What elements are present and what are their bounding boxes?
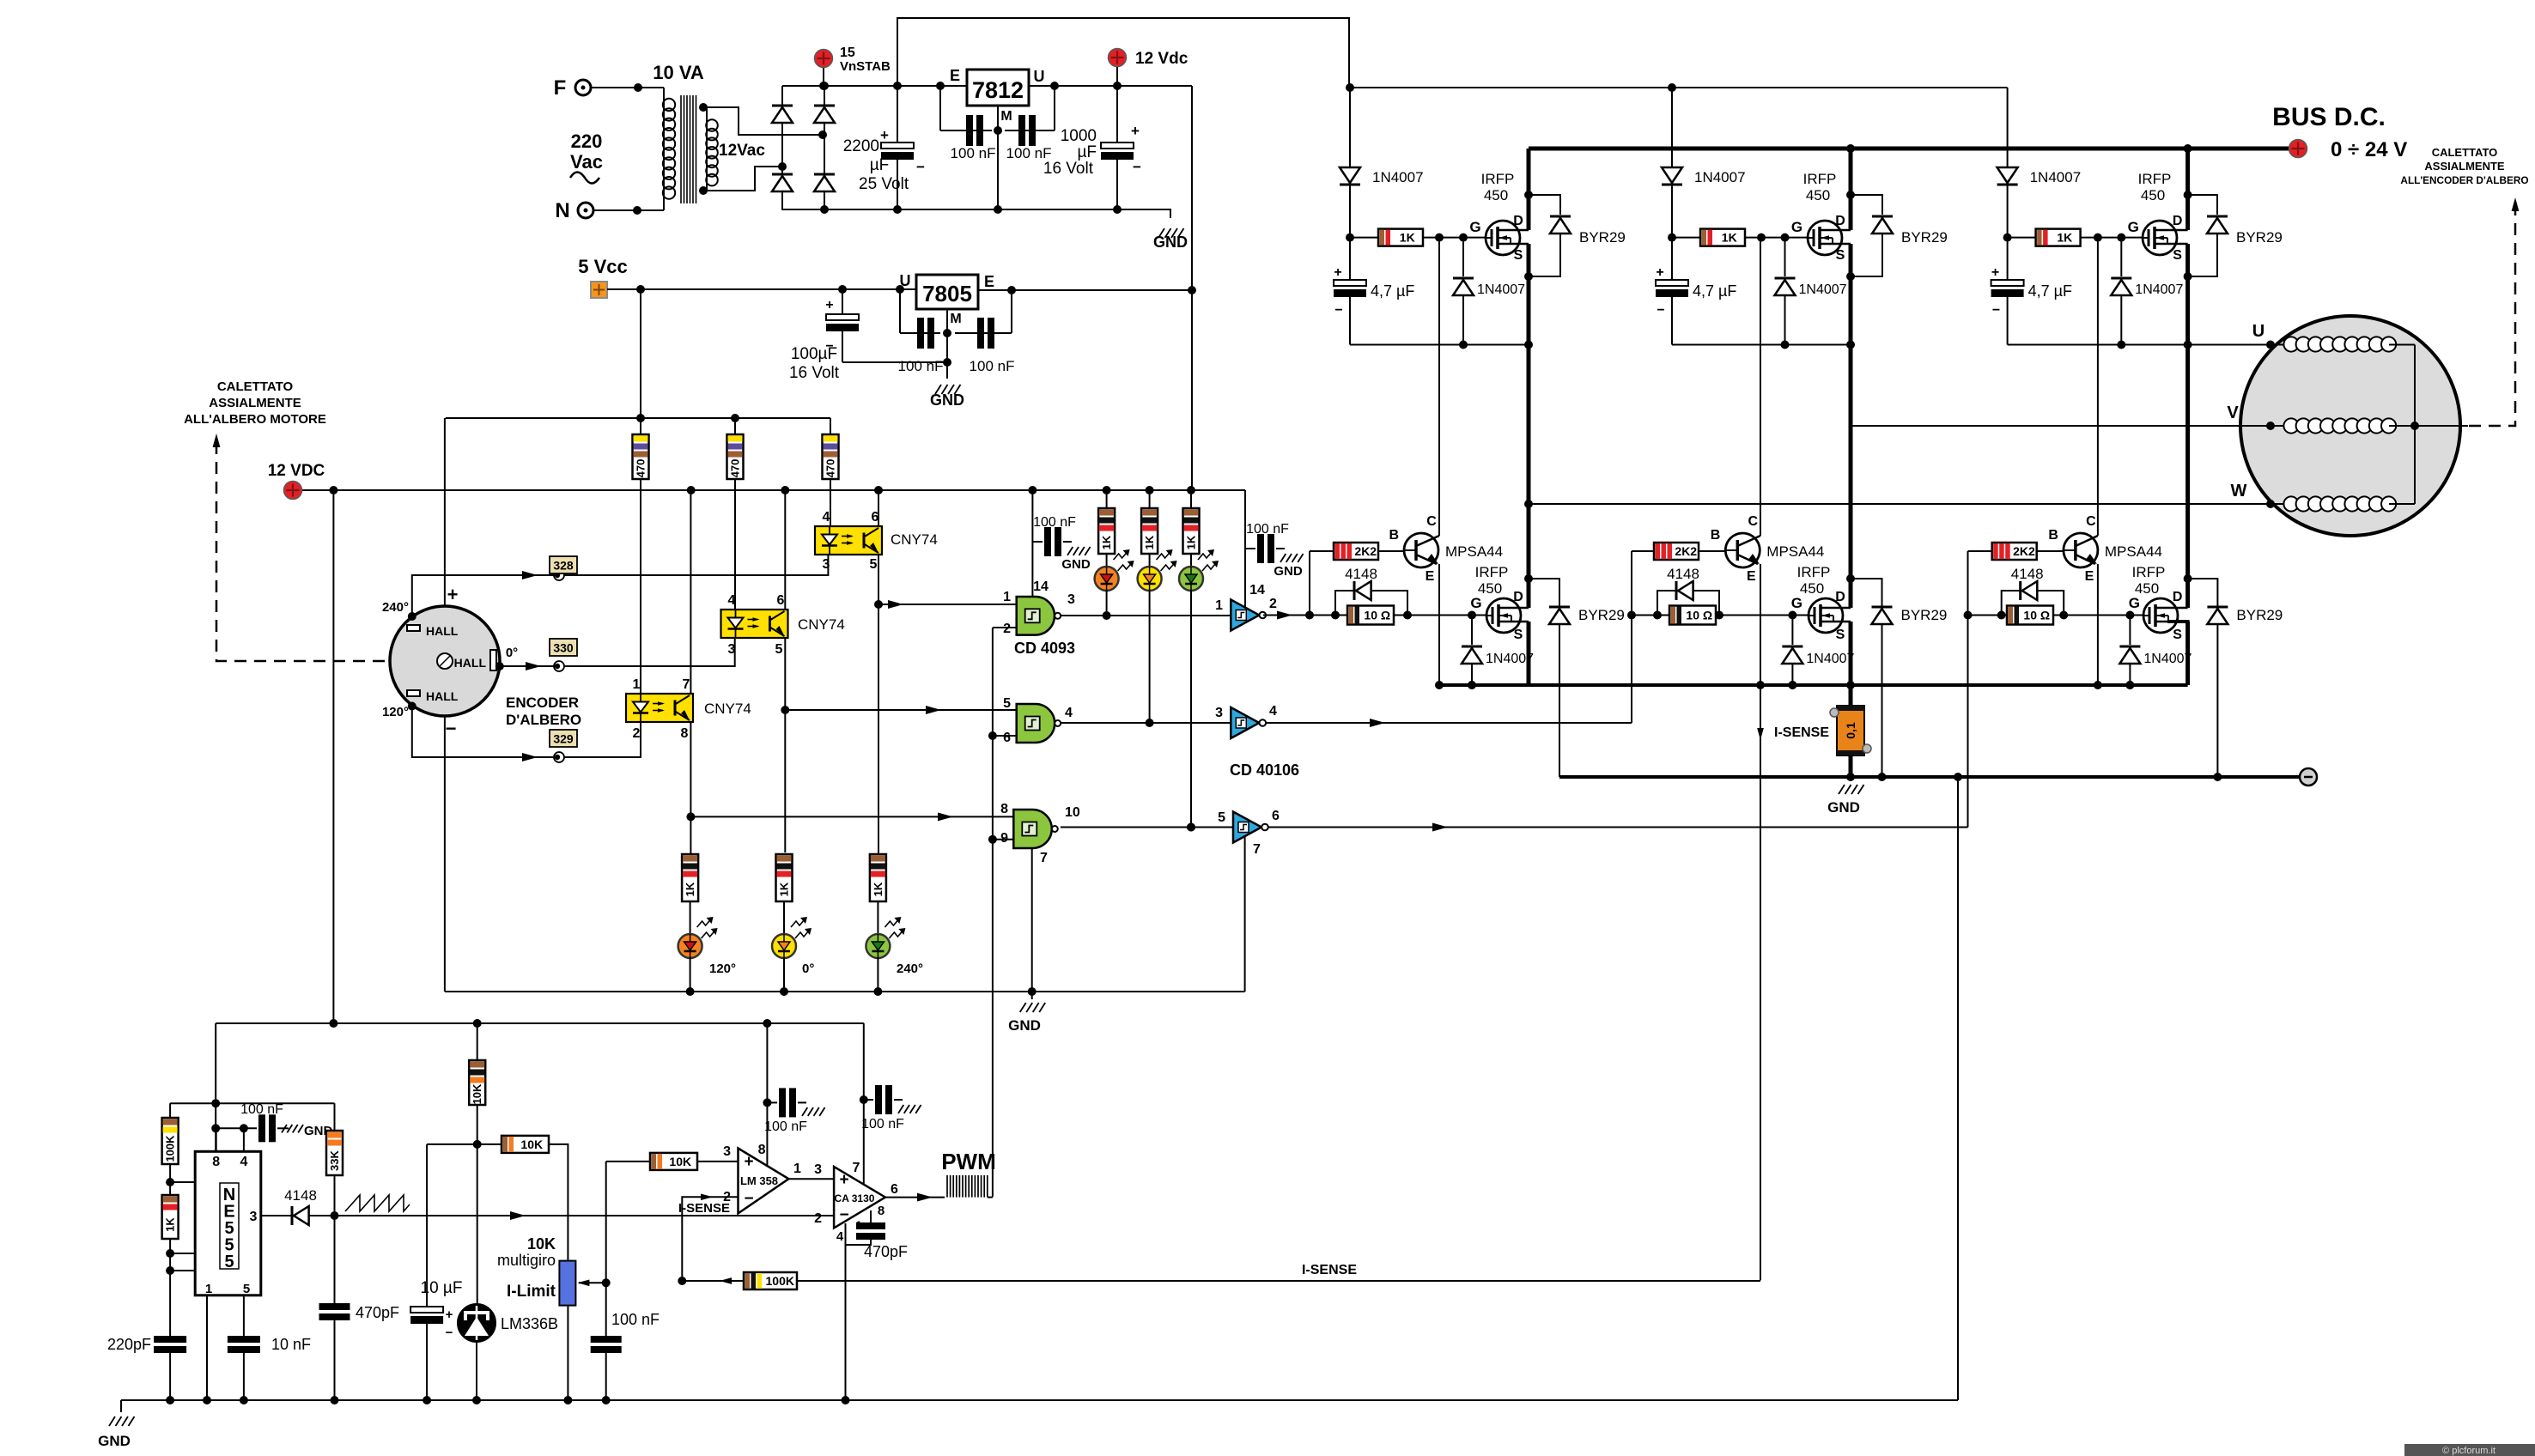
wire gate row (stage 2)	[1632, 595, 1809, 620]
bridge rectifier diode D1 (top-left)	[772, 106, 793, 123]
wire PWM to gate3 pin9	[988, 835, 1013, 844]
svg-text:10 VA: 10 VA	[653, 62, 704, 83]
wire pin2 stub	[166, 1265, 209, 1280]
CNY74#2 pin6 wire	[784, 490, 786, 610]
mosfet IRFP450 upper (stage 1)	[1481, 171, 1529, 263]
svg-text:1N4007: 1N4007	[1799, 282, 1847, 297]
svg-text:IRFP: IRFP	[1481, 171, 1515, 187]
regulator U1 7812	[950, 67, 1045, 124]
svg-text:GND: GND	[98, 1433, 131, 1449]
diode BYR29 lower (stage 3)	[2188, 579, 2283, 777]
mosfet IRFP450 lower (stage 2)	[1797, 564, 1851, 642]
svg-text:4148: 4148	[1667, 566, 1699, 582]
svg-text:33K: 33K	[328, 1150, 341, 1170]
CNY74#1 pin6 wire	[878, 490, 879, 526]
svg-text:I-SENSE: I-SENSE	[678, 1201, 730, 1216]
svg-text:G: G	[2128, 219, 2139, 235]
svg-text:10K: 10K	[669, 1155, 691, 1168]
wire 10K2 to pot	[549, 1144, 568, 1261]
svg-text:E: E	[950, 67, 960, 84]
wire inverter1 out to stage1	[1263, 611, 1310, 620]
wire BUS D.C. rail	[1529, 144, 2289, 153]
diode 1N4007 boot (stage 2)	[1662, 167, 1746, 238]
wire inverter riser (stage 1)	[1305, 551, 1314, 620]
svg-text:100 nF: 100 nF	[1246, 522, 1289, 537]
resistor 1K (LED 120 up)	[1098, 490, 1115, 567]
dashed link to motor shaft (left)	[213, 434, 391, 661]
opamp U7 CA3130	[814, 1161, 898, 1244]
wire 5V to LED rail	[640, 289, 641, 418]
diode 1N4007 gate clamp lower (stage 2)	[1782, 616, 1854, 690]
wire source to aux rail (stage 3)	[2185, 244, 2190, 345]
hall sensor (240)	[407, 624, 459, 638]
svg-text:M: M	[950, 312, 961, 326]
node 12 Vdc	[1109, 49, 1188, 91]
encoder 120 deg output wire	[382, 702, 641, 761]
wire signal ground rail	[121, 1396, 1958, 1404]
wire pin8 stub	[216, 1128, 217, 1151]
svg-text:16 Volt: 16 Volt	[1043, 160, 1094, 178]
svg-text:HALL: HALL	[454, 656, 487, 670]
svg-text:4,7 µF: 4,7 µF	[1693, 282, 1736, 300]
diode BYR29 upper (stage 3)	[2184, 191, 2283, 281]
CNY74#3 pin7 wire	[690, 490, 691, 694]
svg-text:100K: 100K	[766, 1274, 794, 1288]
wire VnSTAB drop (stage 1)	[1349, 88, 1351, 167]
svg-text:+: +	[839, 1171, 848, 1189]
svg-text:12Vac: 12Vac	[719, 142, 765, 160]
svg-text:LM 358: LM 358	[740, 1174, 778, 1187]
capacitor 100nF (7805 left)	[898, 289, 944, 374]
wire VnSTAB top feed	[893, 18, 1349, 90]
svg-text:1N4007: 1N4007	[2143, 652, 2192, 666]
wire stage3 lower source corner	[2167, 622, 2188, 685]
wire lower source (stage 2)	[1846, 622, 1855, 689]
svg-text:+: +	[825, 298, 833, 312]
wire drain to BUS (stage 2)	[1849, 149, 1853, 230]
voltage ref LM336B	[458, 1144, 558, 1404]
wire VnSTAB drop (stage 3)	[2007, 88, 2009, 167]
wire aux rail (stage 1)	[1350, 341, 1533, 349]
svg-text:+: +	[1334, 265, 1341, 280]
svg-text:G: G	[1791, 219, 1802, 235]
svg-text:120°: 120°	[382, 705, 409, 719]
svg-text:G: G	[2129, 595, 2140, 611]
wire led0 to gate2 out	[1146, 591, 1154, 727]
svg-text:−: −	[1133, 159, 1141, 175]
node 5 Vcc	[578, 256, 628, 298]
led 0 low (yellow)	[772, 917, 814, 976]
wire source to aux rail (stage 2)	[1849, 244, 1853, 345]
svg-text:B: B	[1711, 528, 1721, 543]
wire pin4 stub	[240, 1124, 248, 1151]
svg-text:S: S	[1836, 628, 1845, 642]
resistor 1K gate (stage 3)	[2003, 219, 2143, 246]
svg-text:100 nF: 100 nF	[861, 1117, 904, 1131]
svg-text:1K: 1K	[1143, 535, 1156, 549]
svg-text:470: 470	[635, 459, 647, 478]
svg-text:100 nF: 100 nF	[1033, 515, 1076, 530]
svg-text:16 Volt: 16 Volt	[789, 364, 840, 382]
svg-text:CD 40106: CD 40106	[1230, 761, 1299, 779]
wire pin3 out	[261, 1215, 291, 1216]
svg-text:+: +	[447, 584, 459, 605]
svg-text:GND: GND	[1153, 234, 1188, 251]
wire pin6 stub	[166, 1247, 209, 1262]
svg-text:330: 330	[553, 641, 574, 655]
svg-text:4: 4	[836, 1229, 844, 1244]
bridge rectifier diode D4 (bottom-right)	[814, 174, 835, 191]
wire phase U to motor	[2188, 322, 2286, 349]
svg-text:2: 2	[1003, 622, 1011, 636]
wire CA3130 pin4 ground	[842, 1223, 850, 1404]
svg-text:CNY74: CNY74	[798, 616, 845, 633]
svg-text:1: 1	[205, 1282, 212, 1296]
wire source rail (rail A)	[1439, 681, 2188, 689]
svg-text:S: S	[2173, 248, 2182, 263]
svg-text:100 nF: 100 nF	[951, 145, 996, 161]
capacitor 4,7uF boot (stage 3)	[1991, 238, 2072, 345]
svg-text:450: 450	[1806, 187, 1830, 203]
diode 4148 (stage 3)	[2002, 566, 2064, 616]
led 120 low (orange)	[678, 917, 736, 976]
svg-text:−: −	[446, 718, 457, 739]
mosfet IRFP450 lower (stage 1)	[1475, 564, 1529, 642]
svg-text:3: 3	[823, 557, 830, 572]
wire 7812 input rail	[936, 82, 945, 90]
svg-text:ASSIALMENTE: ASSIALMENTE	[209, 396, 301, 410]
wire source to aux rail (stage 1)	[1527, 244, 1531, 345]
potentiometer I-Limit 10K multigiro	[497, 1235, 575, 1404]
inverter U4C CD40106 (5/6)	[1218, 809, 1280, 843]
svg-text:BYR29: BYR29	[1578, 607, 1625, 623]
wire 12VDC rail	[302, 486, 1245, 494]
transformer T1 secondary	[699, 103, 765, 195]
wire logic ground rail	[445, 987, 1245, 996]
diode BYR29 upper (stage 2)	[1846, 191, 1948, 281]
svg-text:7: 7	[1040, 851, 1048, 865]
svg-text:7: 7	[683, 677, 690, 692]
svg-text:BYR29: BYR29	[1901, 229, 1948, 246]
label CD 40106	[1230, 761, 1299, 779]
wire N to transformer	[593, 206, 664, 215]
svg-text:10K: 10K	[471, 1083, 483, 1104]
svg-text:5 Vcc: 5 Vcc	[578, 256, 628, 277]
wire aux rail (stage 3)	[2008, 341, 2192, 349]
wire 5Vcc rail	[607, 285, 916, 294]
svg-text:450: 450	[2141, 187, 2165, 203]
diode 4148 (555)	[284, 1187, 334, 1225]
diode 1N4007 boot (stage 1)	[1340, 167, 1424, 238]
capacitor 100nF (CD4093)	[1032, 515, 1090, 572]
svg-text:LM336B: LM336B	[501, 1315, 558, 1332]
svg-text:1000: 1000	[1061, 127, 1097, 145]
svg-text:470: 470	[824, 459, 837, 478]
diode BYR29 lower (stage 1)	[1529, 579, 1625, 777]
wire op-amp supply row	[216, 1019, 864, 1028]
wire led120 to gate1 out	[1103, 591, 1111, 620]
svg-text:6: 6	[891, 1182, 898, 1197]
svg-text:2200: 2200	[843, 137, 879, 155]
svg-text:1K: 1K	[1722, 231, 1737, 245]
svg-text:470pF: 470pF	[864, 1243, 908, 1260]
capacitor 100nF (7812 left)	[940, 86, 995, 161]
svg-text:3: 3	[1215, 706, 1223, 720]
svg-text:5: 5	[243, 1282, 250, 1296]
svg-text:U: U	[1034, 68, 1045, 85]
svg-text:2K2: 2K2	[1354, 544, 1377, 558]
svg-text:7: 7	[853, 1161, 860, 1175]
wire CA3130 out PWM	[885, 1193, 945, 1202]
svg-text:−: −	[916, 159, 925, 175]
svg-text:CALETTATO: CALETTATO	[2432, 146, 2498, 159]
svg-text:100 nF: 100 nF	[240, 1102, 283, 1117]
label CALETTATO (left)	[184, 379, 326, 427]
svg-text:2K2: 2K2	[2013, 544, 2035, 558]
svg-text:V: V	[2227, 403, 2239, 422]
capacitor 10nF	[228, 1336, 311, 1404]
svg-text:+: +	[1656, 265, 1663, 280]
svg-text:220pF: 220pF	[107, 1336, 151, 1353]
capacitor 1000uF 16V	[1043, 86, 1141, 214]
bridge bottom rail wire	[782, 205, 1170, 214]
svg-text:BYR29: BYR29	[1579, 229, 1626, 246]
svg-text:−: −	[446, 1326, 453, 1340]
svg-text:+: +	[446, 1307, 453, 1322]
wire 470 top rail	[446, 414, 830, 422]
capacitor 4,7uF boot (stage 1)	[1334, 238, 1414, 345]
connector 328	[550, 556, 577, 580]
wire inverter riser (stage 3)	[1964, 551, 1973, 828]
diode 4148 (stage 2)	[1657, 566, 1719, 616]
svg-text:E: E	[2085, 569, 2094, 584]
resistor 10K vertical	[469, 1023, 485, 1144]
svg-text:G: G	[1469, 219, 1480, 235]
timer U5 NE555	[195, 1151, 261, 1296]
wire gate1 out to inverter1	[1061, 615, 1231, 616]
wire ground riser to power gnd	[1957, 777, 1959, 1400]
svg-text:GND: GND	[1827, 799, 1860, 816]
wire 12V feed to CD40106 pin 14	[1245, 490, 1265, 608]
svg-text:9: 9	[1000, 831, 1008, 846]
diode 1N4007 gate clamp lower (stage 3)	[2119, 616, 2192, 690]
wire lower source (stage 3)	[2185, 622, 2190, 685]
svg-text:BYR29: BYR29	[2236, 229, 2283, 246]
ground GND (power stage)	[1827, 785, 1863, 816]
node BUS D.C. 0-24V	[2272, 103, 2407, 161]
inverter U4B CD40106 (3/4)	[1215, 704, 1277, 738]
svg-text:HALL: HALL	[426, 689, 459, 703]
svg-text:µF: µF	[870, 156, 890, 174]
svg-text:4,7 µF: 4,7 µF	[1371, 282, 1414, 300]
connector 330	[550, 639, 577, 671]
svg-text:5: 5	[1218, 810, 1225, 825]
svg-text:5: 5	[775, 642, 783, 657]
svg-text:1K: 1K	[684, 882, 696, 896]
svg-text:−: −	[1334, 303, 1342, 318]
bridge top rail wire	[782, 82, 967, 90]
bridge left column wire	[781, 86, 783, 210]
wire led240low to rail	[877, 958, 878, 992]
regulator U2 7805	[900, 272, 995, 326]
svg-text:5: 5	[224, 1253, 234, 1271]
wire wiper to 10K3	[606, 1161, 650, 1162]
watermark	[2404, 1444, 2535, 1456]
diode BYR29 lower (stage 2)	[1851, 579, 1947, 777]
ground GND (power)	[1117, 209, 1188, 251]
resistor 100K (555)	[162, 1103, 179, 1195]
wire secondary top to bridge	[707, 107, 827, 139]
CD40106 pin7 ground wire	[1245, 836, 1261, 992]
hall sensor (0)	[454, 650, 496, 670]
wire LM358 out to CA3130	[788, 1162, 834, 1179]
svg-text:7812: 7812	[972, 77, 1024, 103]
svg-text:12 Vdc: 12 Vdc	[1135, 50, 1188, 68]
terminal F (220Vac line)	[554, 76, 591, 100]
resistor 1K (555)	[162, 1195, 179, 1336]
wire phase V to motor	[1851, 403, 2286, 430]
wire led120low to rail	[690, 958, 691, 992]
svg-text:3: 3	[1067, 592, 1075, 607]
mosfet IRFP450 lower (stage 3)	[2132, 564, 2188, 642]
wire I-SENSE column	[1760, 685, 1761, 1280]
motor body	[2240, 316, 2460, 536]
wire pot wiper	[577, 1278, 610, 1287]
wire led240 to gate3 out	[1187, 591, 1195, 832]
svg-text:100 nF: 100 nF	[611, 1311, 660, 1328]
wire drain to BUS (stage 3)	[2185, 149, 2190, 230]
svg-text:U: U	[900, 272, 911, 289]
resistor 10K horizontal #2	[502, 1136, 549, 1153]
svg-text:1N4007: 1N4007	[2135, 282, 2183, 297]
svg-text:S: S	[1836, 248, 1845, 263]
diode 4148 (stage 1)	[1335, 566, 1407, 616]
bridge rectifier diode D2 (top-right)	[814, 106, 835, 123]
svg-text:240°: 240°	[382, 600, 409, 615]
svg-text:6: 6	[1003, 731, 1011, 745]
wire PWM to gate1 pin2	[993, 627, 1017, 628]
svg-text:G: G	[1470, 595, 1481, 611]
encoder hub	[437, 653, 453, 669]
sawtooth waveform symbol	[331, 1195, 410, 1220]
svg-text:1K: 1K	[778, 882, 791, 896]
ground GND (7805)	[930, 385, 964, 409]
mosfet IRFP450 upper (stage 3)	[2138, 171, 2188, 263]
svg-text:GND: GND	[1274, 564, 1303, 579]
led 120 (red/orange)	[1095, 549, 1134, 591]
svg-text:D: D	[1513, 214, 1523, 228]
resistor 10 Ohm (stage 1)	[1347, 606, 1394, 625]
wire opto1 to gate1 pin1	[878, 590, 1017, 609]
svg-text:7: 7	[1253, 842, 1261, 857]
svg-text:3: 3	[814, 1162, 822, 1177]
CNY74#2 pin5 wire	[781, 638, 789, 852]
svg-text:0 ÷ 24 V: 0 ÷ 24 V	[2331, 138, 2407, 161]
svg-text:6: 6	[1272, 809, 1280, 823]
svg-text:I-SENSE: I-SENSE	[1774, 725, 1829, 740]
svg-text:MPSA44: MPSA44	[2105, 543, 2162, 560]
svg-text:450: 450	[2135, 580, 2159, 597]
wire aux rail (stage 2)	[1672, 341, 1855, 349]
svg-text:BYR29: BYR29	[2236, 607, 2283, 623]
svg-text:450: 450	[1478, 580, 1502, 597]
svg-text:CALETTATO: CALETTATO	[217, 379, 294, 394]
resistor 470 #1	[633, 418, 649, 694]
label CD 4093	[1014, 640, 1075, 657]
svg-text:ENCODER: ENCODER	[506, 695, 579, 711]
wire gate row (stage 3)	[1968, 595, 2144, 620]
svg-text:0,1: 0,1	[1844, 722, 1857, 739]
wire inverter3 out to stage3 riser	[1267, 823, 1968, 832]
svg-text:D: D	[1513, 590, 1523, 604]
connector 329	[550, 730, 577, 762]
capacitor 100nF (CA3130)	[861, 1085, 921, 1131]
encoder 240 deg output wire	[382, 555, 828, 621]
svg-text:C: C	[2086, 514, 2096, 529]
svg-text:multigiro: multigiro	[497, 1252, 556, 1269]
svg-text:+: +	[880, 127, 889, 143]
resistor 1K (LED 0 up)	[1141, 490, 1158, 567]
wire VnSTAB drop (stage 2)	[1671, 88, 1673, 167]
resistor 1K (LED 240 low)	[870, 854, 886, 934]
resistor 470 #2	[727, 418, 744, 610]
wire wiper column	[605, 1162, 607, 1336]
encoder disc (ENCODER D'ALBERO)	[390, 606, 500, 716]
svg-text:CD 4093: CD 4093	[1014, 640, 1075, 657]
svg-text:4: 4	[240, 1155, 247, 1169]
svg-text:CA 3130: CA 3130	[835, 1192, 875, 1204]
svg-text:GND: GND	[930, 391, 964, 409]
wire gate row (stage 1)	[1310, 595, 1486, 620]
svg-text:4148: 4148	[2011, 566, 2044, 582]
encoder 0 deg output wire	[495, 637, 735, 670]
bridge right column wire	[824, 86, 825, 210]
svg-text:I-SENSE: I-SENSE	[1302, 1263, 1357, 1277]
mosfet IRFP450 upper (stage 2)	[1803, 171, 1851, 263]
ground GND (signal)	[98, 1400, 134, 1449]
transistor MPSA44 (stage 1)	[1389, 514, 1503, 584]
svg-text:220: 220	[571, 130, 603, 152]
svg-text:µF: µF	[1077, 143, 1097, 161]
wire power ground rail (rail B)	[1559, 773, 2307, 781]
svg-text:E: E	[1426, 569, 1435, 584]
diode 1N4007 gate clamp lower (stage 1)	[1462, 616, 1534, 690]
svg-text:D: D	[1835, 214, 1845, 228]
capacitor 100nF (7812 right)	[1005, 82, 1059, 161]
svg-text:4: 4	[728, 593, 736, 608]
svg-text:G: G	[1791, 595, 1802, 611]
svg-text:10 nF: 10 nF	[271, 1336, 311, 1353]
svg-text:D: D	[1835, 590, 1845, 604]
svg-text:D'ALBERO: D'ALBERO	[506, 712, 581, 728]
minus terminal	[2217, 768, 2317, 786]
node 12VDC	[268, 462, 325, 500]
svg-text:MPSA44: MPSA44	[1766, 543, 1824, 560]
led 240 low (green)	[866, 917, 923, 976]
terminal N (220Vac neutral)	[555, 199, 593, 222]
resistor 2K2 (stage 1)	[1310, 543, 1404, 560]
opamp U6 LM358	[723, 1143, 801, 1213]
svg-text:1: 1	[793, 1162, 801, 1176]
svg-text:120°: 120°	[709, 962, 736, 976]
node 15 VnSTAB	[815, 45, 891, 90]
svg-text:1: 1	[1003, 590, 1011, 604]
svg-text:10: 10	[1065, 805, 1080, 820]
capacitor 2200uF 25V	[843, 86, 925, 214]
svg-text:2: 2	[633, 726, 641, 741]
svg-text:HALL: HALL	[426, 624, 459, 638]
svg-text:C: C	[1748, 514, 1759, 529]
